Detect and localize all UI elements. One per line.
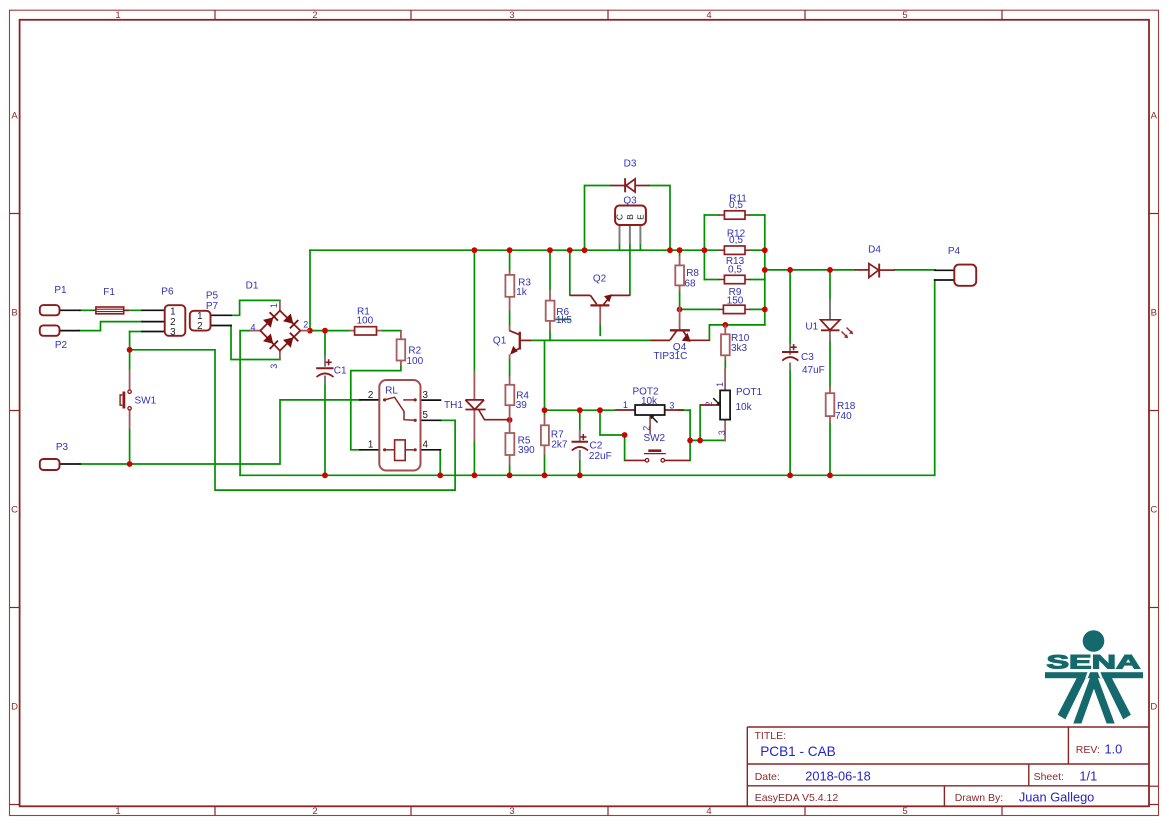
svg-text:1: 1 bbox=[368, 440, 373, 451]
svg-text:1: 1 bbox=[115, 10, 120, 21]
svg-text:B: B bbox=[625, 214, 635, 220]
svg-text:A: A bbox=[1151, 111, 1158, 122]
svg-text:1: 1 bbox=[623, 400, 628, 410]
svg-text:P4: P4 bbox=[948, 246, 961, 257]
svg-text:TIP31C: TIP31C bbox=[653, 351, 687, 362]
svg-text:U1: U1 bbox=[805, 321, 818, 332]
svg-text:3: 3 bbox=[422, 390, 428, 401]
svg-text:100: 100 bbox=[356, 316, 373, 327]
svg-text:5: 5 bbox=[902, 10, 907, 21]
svg-text:2: 2 bbox=[704, 401, 714, 406]
svg-text:F1: F1 bbox=[103, 287, 115, 298]
svg-text:Juan Gallego: Juan Gallego bbox=[1019, 790, 1094, 805]
svg-text:D4: D4 bbox=[868, 245, 881, 256]
svg-text:1k5: 1k5 bbox=[556, 315, 573, 326]
svg-text:Q2: Q2 bbox=[593, 274, 607, 285]
svg-text:5: 5 bbox=[902, 806, 907, 817]
svg-text:D: D bbox=[1150, 702, 1157, 713]
svg-text:3k3: 3k3 bbox=[731, 343, 748, 354]
svg-text:68: 68 bbox=[684, 279, 696, 290]
svg-text:390: 390 bbox=[518, 445, 535, 456]
svg-text:1: 1 bbox=[715, 382, 725, 387]
svg-text:P3: P3 bbox=[56, 442, 69, 453]
svg-text:3: 3 bbox=[170, 327, 176, 338]
svg-text:C: C bbox=[615, 214, 625, 220]
svg-text:1: 1 bbox=[269, 303, 279, 308]
svg-text:P6: P6 bbox=[161, 286, 174, 297]
svg-text:1: 1 bbox=[170, 307, 175, 318]
svg-text:2018-06-18: 2018-06-18 bbox=[805, 769, 870, 784]
svg-text:39: 39 bbox=[516, 400, 528, 411]
svg-text:1/1: 1/1 bbox=[1079, 769, 1097, 784]
svg-text:10k: 10k bbox=[736, 402, 753, 413]
svg-text:C3: C3 bbox=[801, 352, 814, 363]
svg-text:E: E bbox=[635, 214, 645, 220]
svg-text:C: C bbox=[11, 505, 18, 516]
svg-text:1.0: 1.0 bbox=[1105, 742, 1123, 757]
svg-text:Q1: Q1 bbox=[493, 336, 507, 347]
svg-text:2: 2 bbox=[642, 426, 652, 431]
svg-text:D1: D1 bbox=[246, 281, 259, 292]
svg-text:2: 2 bbox=[303, 320, 308, 330]
svg-text:Date:: Date: bbox=[755, 771, 780, 783]
svg-text:PCB1 - CAB: PCB1 - CAB bbox=[760, 744, 836, 759]
svg-text:REV:: REV: bbox=[1076, 744, 1100, 756]
svg-text:EasyEDA V5.4.12: EasyEDA V5.4.12 bbox=[755, 792, 839, 804]
svg-text:2k7: 2k7 bbox=[551, 440, 568, 451]
svg-text:D: D bbox=[11, 702, 18, 713]
svg-text:3: 3 bbox=[269, 364, 279, 369]
svg-text:P5: P5 bbox=[206, 290, 219, 301]
svg-text:C2: C2 bbox=[590, 441, 603, 452]
svg-text:2: 2 bbox=[312, 10, 317, 21]
svg-text:Q3: Q3 bbox=[623, 196, 637, 207]
svg-text:0,5: 0,5 bbox=[729, 235, 743, 246]
svg-text:10k: 10k bbox=[641, 396, 658, 407]
svg-text:4: 4 bbox=[422, 440, 428, 451]
svg-text:100: 100 bbox=[406, 356, 423, 367]
svg-text:2: 2 bbox=[368, 390, 373, 401]
svg-text:POT1: POT1 bbox=[736, 387, 763, 398]
svg-text:C: C bbox=[1150, 505, 1157, 516]
svg-text:D3: D3 bbox=[624, 158, 637, 169]
svg-text:Sheet:: Sheet: bbox=[1034, 771, 1064, 783]
svg-text:2: 2 bbox=[312, 806, 317, 817]
svg-text:P7: P7 bbox=[206, 301, 219, 312]
svg-text:4: 4 bbox=[250, 323, 255, 333]
svg-text:150: 150 bbox=[727, 295, 744, 306]
svg-text:SW1: SW1 bbox=[135, 396, 157, 407]
svg-text:22uF: 22uF bbox=[589, 451, 612, 462]
svg-text:SENA: SENA bbox=[1047, 652, 1141, 674]
svg-text:740: 740 bbox=[835, 411, 852, 422]
svg-text:1: 1 bbox=[115, 806, 120, 817]
svg-text:B: B bbox=[1151, 308, 1157, 319]
svg-text:TITLE:: TITLE: bbox=[755, 730, 787, 742]
svg-text:P1: P1 bbox=[54, 285, 67, 296]
svg-text:Drawn By:: Drawn By: bbox=[955, 792, 1003, 804]
svg-text:3: 3 bbox=[509, 806, 514, 817]
svg-text:1k: 1k bbox=[516, 287, 528, 298]
svg-text:5: 5 bbox=[422, 410, 428, 421]
svg-text:4: 4 bbox=[706, 10, 711, 21]
svg-text:3: 3 bbox=[669, 401, 674, 411]
svg-text:0,5: 0,5 bbox=[729, 200, 743, 211]
svg-text:A: A bbox=[11, 111, 18, 122]
svg-text:2: 2 bbox=[197, 321, 202, 332]
svg-text:P2: P2 bbox=[55, 340, 68, 351]
svg-text:RL: RL bbox=[385, 386, 398, 397]
svg-text:B: B bbox=[11, 308, 17, 319]
svg-text:TH1: TH1 bbox=[444, 400, 463, 411]
svg-text:47uF: 47uF bbox=[802, 365, 825, 376]
svg-text:0,5: 0,5 bbox=[728, 265, 742, 276]
svg-text:4: 4 bbox=[706, 806, 711, 817]
svg-text:3: 3 bbox=[717, 430, 727, 435]
svg-text:C1: C1 bbox=[334, 366, 347, 377]
svg-text:SW2: SW2 bbox=[643, 433, 665, 444]
svg-text:3: 3 bbox=[509, 10, 514, 21]
